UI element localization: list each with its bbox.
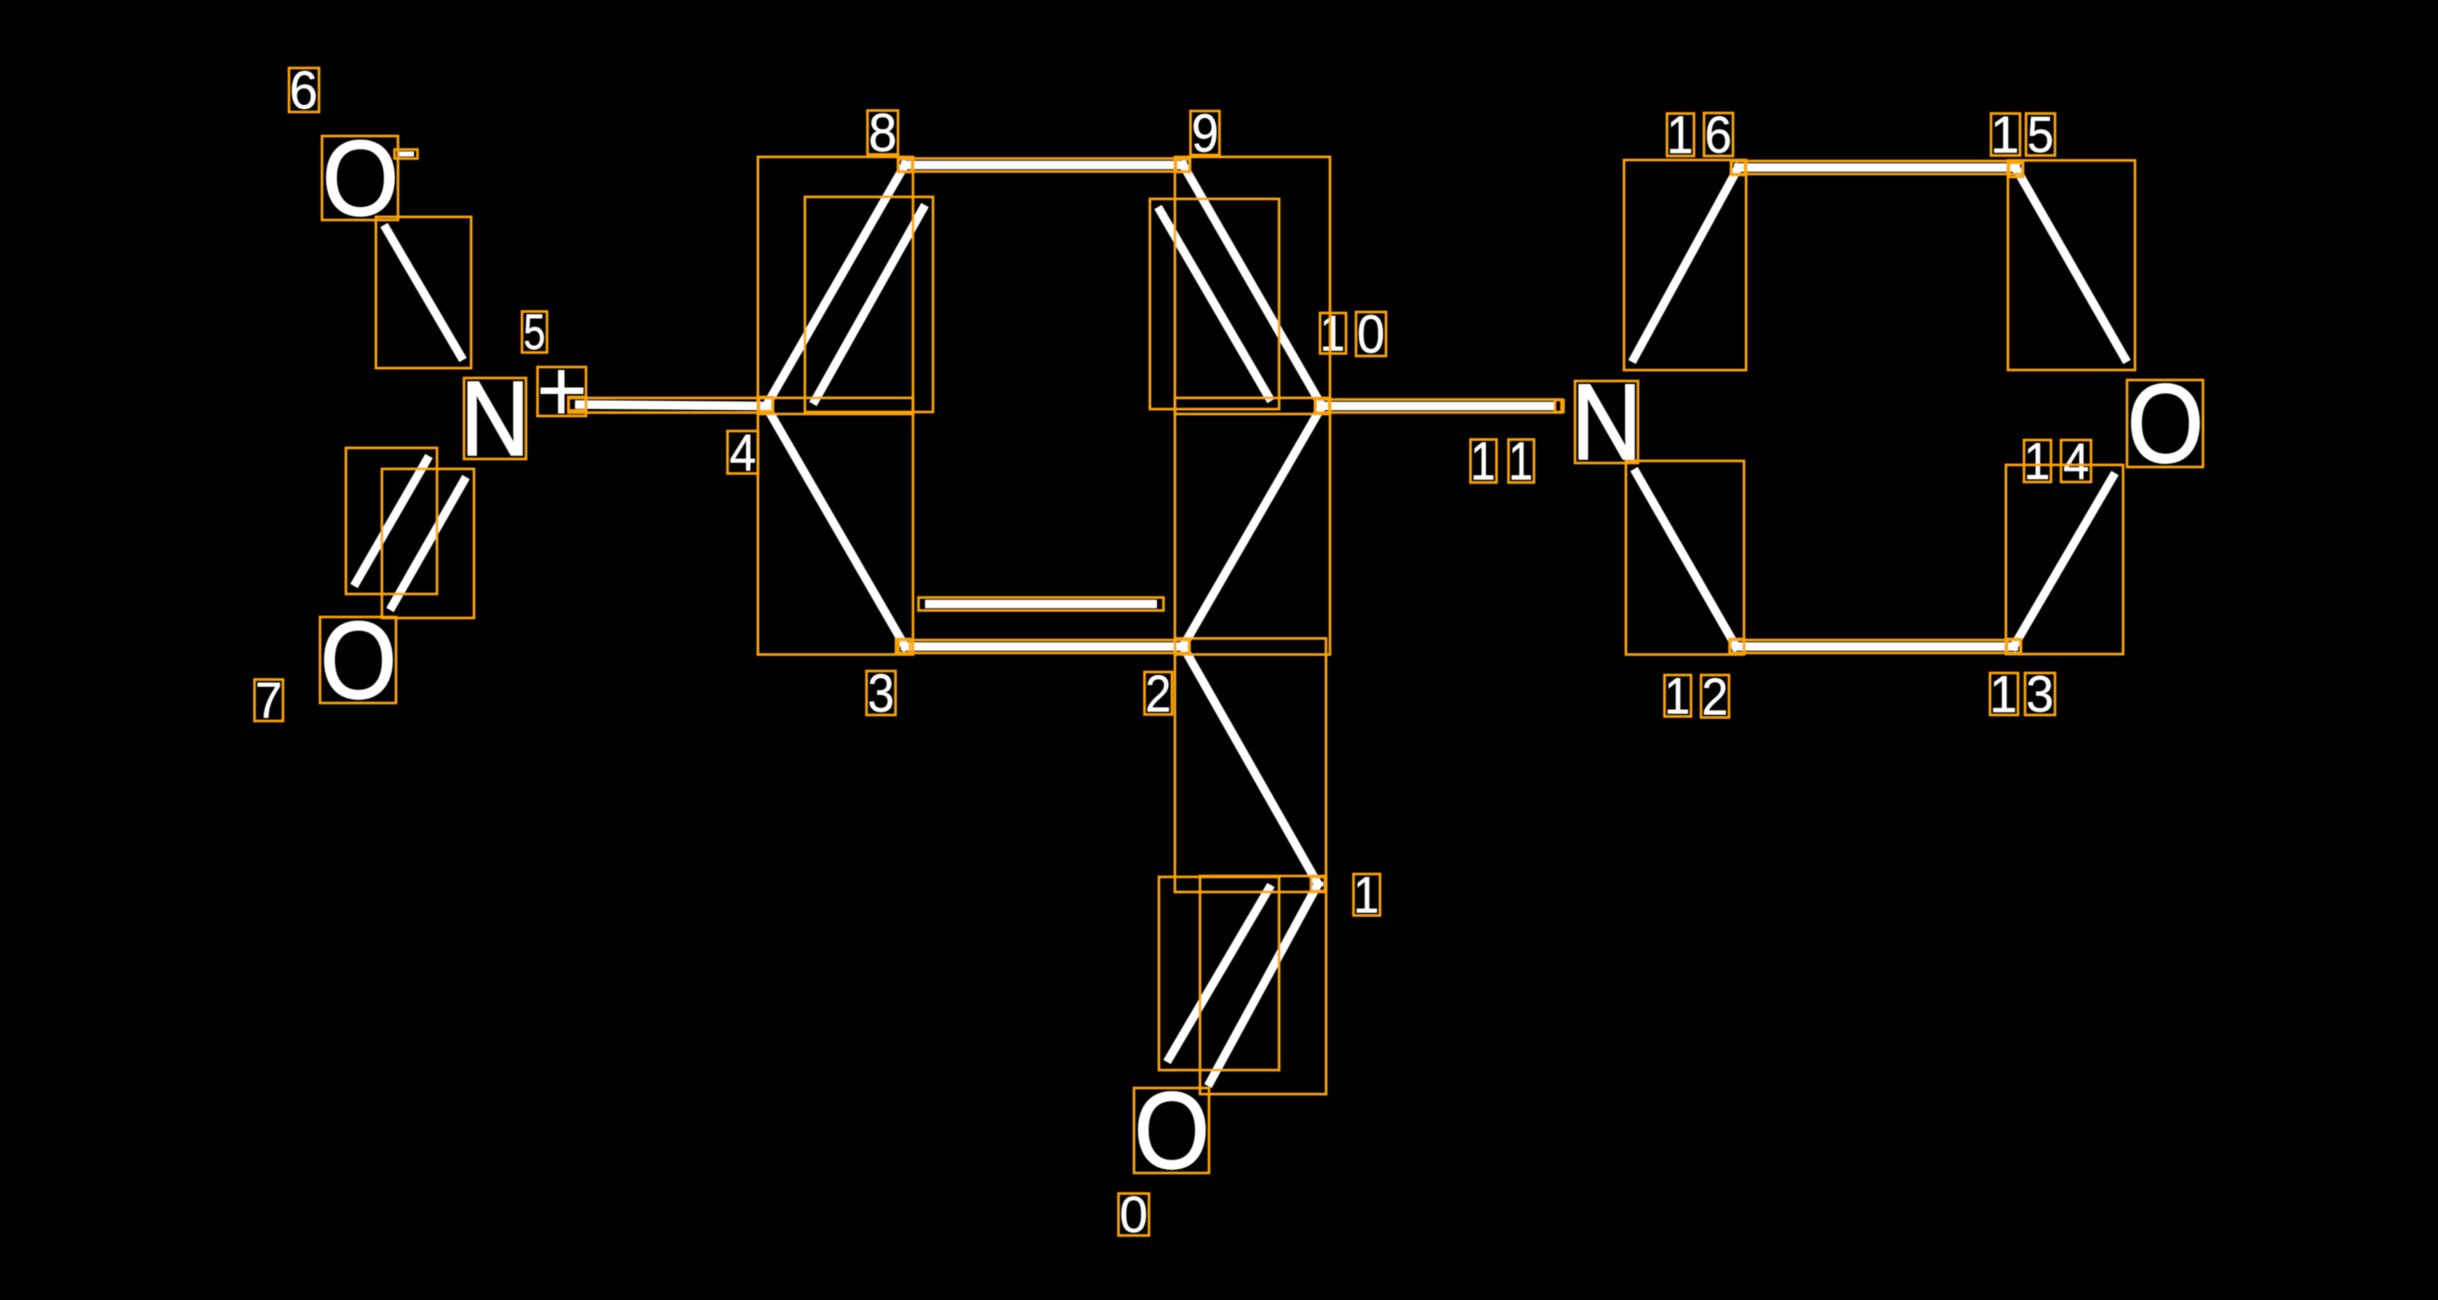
bbox bond O14-C13 (2006, 465, 2123, 654)
bond C10-N11 (1318, 402, 1555, 411)
bbox charge plus (538, 367, 587, 416)
bond N5-C4 (575, 405, 770, 407)
label 12 text (1664, 668, 1728, 726)
bond N5=O7 line b (390, 477, 466, 610)
bbox atom C10 (1315, 399, 1329, 413)
bbox label 14 (2024, 440, 2091, 482)
bond C4=C8 inner (813, 205, 925, 404)
bbox label 13 (1990, 673, 2055, 715)
label 4 text (730, 424, 757, 482)
bbox atom N11 (1575, 381, 1638, 463)
bbox label 3 (867, 671, 896, 715)
bbox bond C2=C3 main (899, 640, 1190, 653)
bbox bond C12-N11 (1626, 461, 1744, 655)
bond O14-C13 (2012, 473, 2115, 650)
label 10 text (1320, 304, 1385, 364)
bbox bond C3-C4 (758, 398, 913, 655)
bbox bond N5=O7 line a (346, 448, 437, 594)
label 3 text (868, 663, 895, 723)
bbox atom C3 (896, 639, 910, 653)
bbox label 10 (1320, 312, 1386, 356)
bbox bond C8-C9 (899, 159, 1190, 172)
bbox label 8 (868, 111, 899, 155)
bbox bond C4=C8 inner (805, 197, 933, 412)
bbox bond O6-N5 (376, 217, 471, 368)
bbox label 2 (1145, 672, 1173, 715)
bbox label 4 (728, 431, 759, 474)
label 16 text (1667, 105, 1732, 165)
bbox label 0 (1119, 1194, 1150, 1236)
bond C1=O0 main (1208, 880, 1320, 1086)
bbox atom O14 (2127, 380, 2203, 467)
label 13 text (1990, 665, 2054, 723)
label 15 text (1990, 105, 2053, 164)
bond N5=O7 line a (354, 456, 429, 586)
bbox atom O6 (322, 136, 398, 220)
charge minus of O6 (398, 152, 414, 157)
bbox atom C1 (1311, 877, 1325, 891)
bbox atom C4 (759, 397, 773, 411)
bbox atom C15 (2009, 163, 2023, 177)
label 1 text (1353, 867, 1379, 924)
bond C1=O0 second (1167, 885, 1271, 1062)
label 11 text (1470, 431, 1533, 492)
bbox bond C10-N11 (1316, 400, 1562, 413)
bbox atom C13 (2007, 639, 2021, 653)
bond C4=C8 main (764, 161, 907, 409)
bbox bond C1=O0 main (1200, 876, 1326, 1094)
bbox atom O0 (1134, 1088, 1209, 1173)
label 0 text (1120, 1186, 1148, 1243)
bbox bond N11-C16 (1624, 160, 1746, 370)
bbox bond N5=O7 line b (382, 469, 474, 618)
bbox label 7 (255, 680, 284, 722)
label 5 text (523, 304, 545, 361)
bond O6-N5 (384, 225, 463, 360)
bbox bond end at N5 (569, 397, 587, 411)
bbox bond C2=C3 inner (919, 598, 1164, 611)
bbox bond end at N11 (1555, 400, 1564, 412)
bond C13-C12 (1732, 642, 2018, 651)
bond C12-N11 (1634, 469, 1738, 650)
bbox label 1 (1354, 874, 1381, 916)
bbox atom C2 (1175, 639, 1189, 653)
bond C2=C3 inner (925, 600, 1157, 609)
bbox label 9 (1191, 111, 1220, 155)
label 2 text (1145, 665, 1171, 723)
bond C15-O14 (2014, 165, 2127, 362)
bbox bond N5-C4 (569, 398, 773, 413)
charge plus of N5 (541, 388, 584, 395)
bbox bond C1=O0 second (1159, 877, 1279, 1070)
bbox bond C10-C2 (1175, 398, 1330, 655)
bond N11-C16 (1632, 164, 1740, 362)
bond C9=C10 inner (1158, 207, 1271, 401)
bbox label 5 (522, 312, 547, 353)
bbox bond C13-C12 (1730, 640, 2021, 653)
bond C2-C1 (1181, 643, 1320, 888)
bbox bond C4=C8 main (758, 157, 913, 414)
label 6 text (289, 61, 317, 120)
bond C3-C4 (764, 403, 907, 651)
label 14 text (2024, 432, 2090, 490)
label 8 text (869, 104, 897, 163)
bbox bond C2-C1 (1175, 638, 1326, 892)
bbox bond C16-C15 (1732, 161, 2023, 174)
bbox atom O7 (320, 617, 396, 703)
bbox bond C15-O14 (2008, 160, 2135, 370)
bbox label 11 (1471, 440, 1535, 483)
bbox atom C12 (1730, 639, 1744, 653)
bond C9=C10 main (1181, 161, 1324, 409)
label 9 text (1192, 103, 1219, 162)
bond C16-C15 (1734, 163, 2020, 172)
bbox atom C16 (1731, 161, 1745, 175)
bbox atom N5 (464, 378, 526, 459)
bbox label 15 (1991, 114, 2055, 156)
bbox atom C8 (898, 159, 912, 172)
bbox charge minus (395, 150, 418, 159)
bond C8-C9 (901, 161, 1187, 170)
bbox label 12 (1665, 675, 1730, 718)
label 7 text (255, 672, 282, 729)
bbox label 16 (1667, 113, 1733, 156)
bbox bond C9=C10 inner (1150, 199, 1279, 409)
bbox atom C9 (1176, 159, 1190, 172)
bond C10-C2 (1181, 403, 1324, 651)
bbox bond C9=C10 main (1175, 157, 1330, 414)
bond C2=C3 main (901, 642, 1187, 651)
bbox label 6 (289, 68, 319, 112)
